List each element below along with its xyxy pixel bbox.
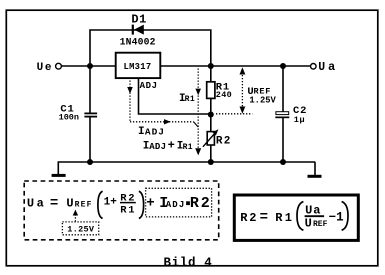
svg-text:−1: −1 [329, 211, 344, 225]
svg-text:+: + [146, 196, 154, 212]
label Ue [37, 62, 52, 74]
wire: left ground stub [57, 162, 59, 174]
formula R2 = R1 [240, 210, 294, 226]
capacitor C1 [84, 113, 97, 118]
wire: Ue terminal to LM317 input [62, 65, 116, 67]
svg-text:U: U [318, 61, 325, 74]
terminal Ua circle [311, 64, 317, 70]
formula Ua = UREF [27, 195, 93, 211]
svg-text:U: U [27, 196, 34, 210]
label 100n [59, 113, 79, 123]
svg-text:R2: R2 [190, 195, 212, 212]
big parenthesis open right formula [297, 202, 303, 231]
svg-text:1µ: 1µ [294, 115, 305, 125]
node: bus junction dot at C1 [87, 159, 93, 165]
arrow from 1.25V to UREF [73, 210, 78, 222]
svg-text:R2: R2 [216, 136, 232, 148]
svg-text:REF: REF [75, 200, 93, 209]
dimension arrow UREF [240, 67, 246, 114]
wire: R2 to ground bus [210, 145, 212, 162]
label 1.25V in box [67, 224, 95, 234]
current path diagonal joiner [194, 122, 199, 127]
svg-text:R1: R1 [185, 95, 196, 104]
svg-text:100n: 100n [59, 113, 79, 123]
svg-text:U: U [305, 216, 312, 230]
label IR1 [179, 93, 195, 105]
wire: LM317 output to Ua terminal [160, 65, 310, 67]
wire: diode top loop from input node up/right/down to output node [90, 30, 211, 113]
svg-text:240: 240 [216, 90, 232, 100]
label Ua [318, 60, 335, 74]
node: bus junction dot at R2 [208, 159, 214, 165]
node: output junction dot at R1 column [208, 63, 214, 69]
node: output junction dot at C2 column [280, 63, 286, 69]
node A: R1/R2/ADJ junction dot [208, 112, 214, 118]
label UREF [247, 86, 271, 98]
label IADJ [138, 126, 165, 138]
formula -1 [329, 211, 344, 225]
label C1 [60, 104, 74, 116]
svg-text:R1: R1 [275, 211, 294, 225]
label 1u [294, 115, 305, 125]
current arrow IADJ vertical from ADJ [127, 81, 133, 122]
svg-text:ADJ: ADJ [140, 81, 158, 91]
ground right [308, 175, 322, 178]
svg-text:=: = [50, 195, 58, 211]
big parenthesis close right formula [342, 202, 348, 231]
caption Bild 4 [164, 256, 213, 270]
svg-text:ADJ: ADJ [145, 126, 165, 137]
diode D1 [132, 25, 144, 35]
ground left [52, 174, 66, 177]
wire: R1 to node A segment [210, 98, 212, 131]
svg-text:e: e [45, 62, 52, 74]
formula 1+ fraction R2/R1 [104, 193, 137, 217]
svg-text:+: + [168, 138, 175, 152]
svg-text:Bild 4: Bild 4 [164, 256, 213, 270]
svg-text:U: U [66, 196, 73, 210]
wire: C2 branch upper [282, 66, 284, 112]
formula box left dashed [24, 181, 219, 240]
svg-text:R2: R2 [240, 211, 258, 225]
formula + IADJ . R2 [146, 195, 211, 212]
label R1 [216, 81, 230, 93]
label 240 [216, 90, 232, 100]
capacitor C2 polarized [275, 112, 289, 119]
svg-text:1.25V: 1.25V [249, 95, 276, 105]
label 1N4002 [120, 36, 156, 47]
label C2 [293, 105, 307, 117]
dotted box 1.25V [62, 222, 98, 235]
current arrow IADJ horizontal [130, 119, 194, 124]
svg-text:=: = [260, 210, 268, 226]
wire: ADJ pin to node A [139, 78, 211, 114]
big parenthesis open left formula [98, 191, 103, 218]
svg-text:U: U [37, 62, 44, 74]
terminal Ue circle [56, 63, 62, 69]
label R2 [216, 136, 232, 148]
svg-text:REF: REF [313, 220, 328, 229]
wire: ground bus [58, 161, 316, 163]
label D1 [131, 12, 146, 26]
formula fraction Ua/UREF [305, 203, 328, 230]
op-amp U1: LM317 regulator box [116, 53, 161, 78]
node: bus junction dot at C2 [280, 159, 286, 165]
svg-text:1.25V: 1.25V [67, 224, 95, 234]
svg-text:1+: 1+ [104, 196, 118, 208]
label LM317 [124, 62, 152, 72]
svg-text:1N4002: 1N4002 [120, 36, 156, 47]
svg-text:I: I [138, 126, 145, 138]
wire: R1 column segment above R1 [210, 66, 212, 82]
wire: C1 branch below input node [89, 118, 91, 163]
big parenthesis close left formula [139, 191, 144, 218]
svg-text:a: a [37, 196, 44, 210]
formula box right solid [234, 195, 358, 240]
wire: C2 branch lower [282, 118, 284, 162]
node: input junction dot [87, 63, 93, 69]
label 1.25V [249, 95, 276, 105]
svg-text:ADJ: ADJ [166, 200, 186, 210]
svg-text:LM317: LM317 [124, 62, 152, 72]
dotted reference line from node A [216, 113, 252, 115]
current arrow IR1 + combined vertical [195, 69, 201, 156]
label ADJ pin [140, 81, 158, 91]
dotted box around IADJ R2 term [146, 188, 212, 217]
svg-text:a: a [328, 60, 335, 74]
resistor R1 [207, 82, 215, 99]
svg-text:R1: R1 [120, 204, 136, 216]
wire: right ground stub [314, 162, 316, 175]
label IADJ+IR1 [143, 138, 193, 152]
svg-text:R1: R1 [183, 143, 193, 152]
svg-text:D1: D1 [131, 12, 146, 26]
resistor R2 variable [203, 129, 219, 147]
svg-text:ADJ: ADJ [149, 142, 166, 152]
